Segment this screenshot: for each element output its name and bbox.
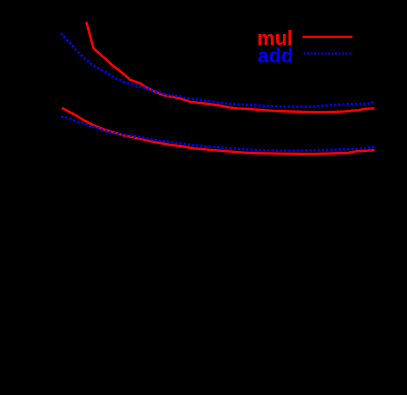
curve add upper [61, 33, 375, 107]
legend sample line mul [303, 36, 353, 38]
curve add lower [61, 117, 375, 151]
curve mul lower [62, 108, 375, 154]
legend sample line add [304, 53, 352, 55]
svg-text:add: add [258, 45, 294, 67]
curve mul upper [86, 22, 374, 112]
